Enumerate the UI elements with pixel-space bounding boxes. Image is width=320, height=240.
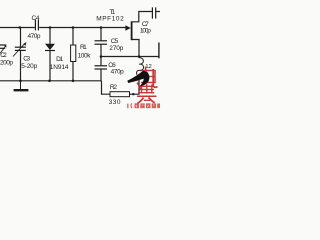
node dot bottom bus R1 [72, 80, 75, 83]
svg-text:C2: C2 [0, 52, 7, 59]
wire R2 left lead [102, 81, 111, 94]
capacitor C2 arrow [0, 47, 5, 53]
background [0, 0, 160, 110]
capacitor C7 plates [152, 7, 155, 18]
capacitor C5 plates [95, 41, 108, 44]
svg-text:D1: D1 [56, 56, 63, 63]
svg-text:330: 330 [109, 99, 121, 106]
wire C3 top lead [20, 28, 22, 48]
terminal bar right edge [158, 43, 160, 59]
wire R2 right lead [130, 74, 140, 94]
node dot top bus D1 [49, 26, 52, 29]
wire D1 top lead [49, 28, 51, 45]
node dot bottom bus C3/ground [19, 80, 22, 83]
svg-text:470p: 470p [28, 33, 41, 40]
wire C3 bottom lead [20, 51, 22, 81]
ground symbol [20, 81, 22, 89]
wire C5 top lead [100, 28, 102, 41]
wire top bus left segment [0, 27, 35, 29]
capacitor C2 (left edge, plates) [0, 45, 5, 48]
node dot source net C5/C6 [100, 55, 103, 58]
wire C5 bottom lead [100, 45, 102, 57]
node dot top bus C3 [19, 26, 22, 29]
node dot top bus R1 [72, 26, 75, 29]
variable capacitor C3 arrow [13, 45, 24, 57]
labels [0, 9, 152, 106]
svg-text:5-20p: 5-20p [21, 63, 37, 70]
wire R1 bottom lead [72, 62, 74, 81]
svg-text:C4: C4 [32, 15, 40, 22]
wire T1 source lead [132, 40, 139, 57]
svg-text:MPF102: MPF102 [96, 15, 124, 22]
transistor T1 gate arrowhead [125, 25, 130, 30]
wire C7 output lead [156, 11, 160, 13]
svg-text:100p: 100p [140, 27, 151, 34]
node dot bottom bus D1 [48, 80, 51, 83]
wire top bus right segment (gate net) [39, 27, 126, 29]
wire R1 top lead [72, 28, 74, 46]
svg-text:C3: C3 [23, 56, 30, 63]
wire C6 bottom lead [100, 69, 102, 80]
resistor R2 box [110, 92, 130, 97]
svg-text:100k: 100k [78, 52, 92, 59]
capacitor C6 plates [95, 66, 108, 69]
node dot R2 right [132, 93, 134, 95]
wire T1 drain lead [132, 12, 152, 22]
svg-text:C5: C5 [111, 38, 119, 45]
node dot source net L2 [138, 55, 141, 58]
node dot top bus C5 [100, 26, 103, 29]
watermark red character upper (drawn strokes) [137, 67, 157, 90]
svg-text:R1: R1 [80, 44, 87, 51]
diode D1 cathode bar [45, 50, 55, 52]
watermark red character lower (drawn strokes) [137, 84, 157, 103]
wire bottom ground bus [0, 80, 102, 82]
diode D1 triangle [45, 44, 55, 50]
transistor T1 channel bar [131, 21, 133, 40]
svg-text:200p: 200p [0, 59, 13, 66]
inductor L2 coil [137, 58, 144, 75]
capacitor C4 (series, top bus) [35, 20, 38, 31]
svg-text:R2: R2 [110, 84, 117, 91]
svg-text:1N914: 1N914 [50, 64, 69, 71]
svg-text:470p: 470p [111, 68, 125, 75]
resistor R1 box [71, 45, 76, 62]
watermark black swoosh [127, 71, 149, 87]
variable capacitor C3 plates [15, 47, 26, 50]
watermark red small text row (drawn marks) [127, 103, 160, 108]
wire source net horizontal [100, 56, 159, 58]
wire C6 top lead [100, 57, 102, 65]
wire D1 bottom lead [49, 51, 51, 81]
svg-text:270p: 270p [109, 45, 123, 52]
